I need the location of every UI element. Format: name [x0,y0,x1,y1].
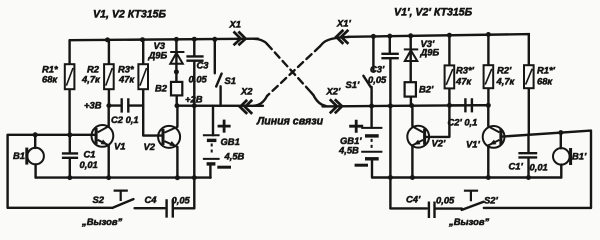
svg-text:С2 0,1: С2 0,1 [111,114,139,125]
svg-text:С4′: С4′ [406,194,421,205]
svg-text:В1: В1 [13,150,25,161]
svg-text:4,5В: 4,5В [224,151,245,162]
svg-text:47к: 47к [118,74,135,85]
svg-text:S2: S2 [93,194,105,205]
svg-text:X2′: X2′ [326,86,341,97]
svg-text:X1′: X1′ [336,18,351,29]
svg-text:S1′: S1′ [346,79,360,90]
svg-text:С1: С1 [84,149,96,160]
svg-text:Д9Б: Д9Б [148,50,168,61]
svg-text:X2: X2 [240,86,253,97]
svg-text:+3В: +3В [84,100,102,111]
svg-text:В2: В2 [155,83,168,94]
svg-text:0,05: 0,05 [172,195,191,206]
svg-text:С1′: С1′ [509,161,524,172]
svg-text:0,01: 0,01 [530,162,548,173]
svg-text:„Вызов”: „Вызов” [81,216,123,227]
svg-text:R1*′: R1*′ [537,65,556,76]
svg-text:0,01: 0,01 [80,159,98,170]
svg-text:„Вызов”: „Вызов” [448,216,490,227]
svg-text:68к: 68к [42,74,58,85]
svg-text:0,05: 0,05 [436,195,455,206]
svg-text:4,5В: 4,5В [338,145,359,156]
svg-text:V1: V1 [114,141,125,152]
svg-text:S2′: S2′ [484,195,498,206]
svg-text:R2′: R2′ [497,65,512,76]
svg-text:4,7к: 4,7к [496,76,516,87]
svg-text:4,7к: 4,7к [81,74,101,85]
svg-text:С2′ 0,1: С2′ 0,1 [448,117,478,128]
svg-text:47к: 47к [455,76,472,87]
svg-text:V2′: V2′ [432,138,446,149]
svg-text:В2′: В2′ [419,84,434,95]
svg-text:0,05: 0,05 [368,74,387,85]
svg-text:V2: V2 [144,141,156,152]
svg-text:Д9Б: Д9Б [420,47,440,58]
svg-text:X1: X1 [229,19,241,30]
svg-text:С3′: С3′ [370,64,385,75]
svg-text:В1′: В1′ [572,151,587,162]
svg-text:68к: 68к [537,76,553,87]
svg-text:GB1: GB1 [221,136,240,147]
svg-text:С4: С4 [145,194,158,205]
svg-text:0,05: 0,05 [189,74,208,85]
svg-text:V1, V2 КТ315Б: V1, V2 КТ315Б [93,9,167,21]
svg-text:Линия связи: Линия связи [256,116,324,128]
svg-text:+2В: +2В [185,94,203,105]
svg-text:С3: С3 [197,60,210,71]
svg-text:R3*′: R3*′ [456,65,475,76]
svg-text:V1′: V1′ [466,139,480,150]
svg-text:S1: S1 [225,75,236,86]
svg-text:V1′, V2′ КТ315Б: V1′, V2′ КТ315Б [394,7,473,19]
